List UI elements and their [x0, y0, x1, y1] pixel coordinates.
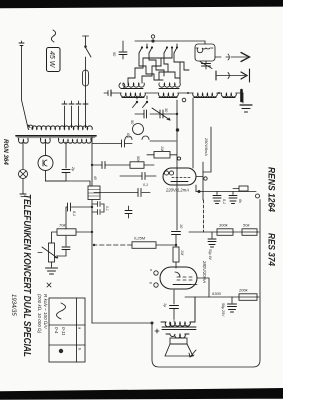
HT feed line down right — [196, 191, 256, 193]
resistor 6k — [233, 186, 248, 191]
wire — [150, 140, 176, 142]
tuned circuit coil L2 (lower group) — [119, 83, 144, 89]
wire — [242, 93, 244, 103]
volume feed line — [156, 244, 176, 246]
screen bypass cap 50u — [208, 232, 216, 260]
switch contact dots — [176, 46, 178, 48]
svg-text:50μ 25V: 50μ 25V — [221, 303, 225, 317]
switch wiper blades — [139, 48, 177, 54]
screen feed line — [189, 231, 259, 233]
dashed shield line — [203, 200, 205, 232]
potentiometer — [38, 232, 58, 262]
cathode wire — [173, 290, 175, 304]
trimmer capacitor C-ant — [200, 61, 212, 69]
transformer primary winding — [28, 124, 92, 130]
svg-text:0,1: 0,1 — [222, 199, 226, 204]
svg-text:1M: 1M — [160, 146, 164, 152]
wire with series capacitor — [120, 173, 156, 180]
grid resistor 1M — [147, 152, 177, 159]
svg-text:50k: 50k — [243, 223, 250, 228]
HT winding to filter cap 2u — [62, 142, 75, 181]
node a (terminal dot on bus) — [151, 39, 154, 42]
45W consumption box — [47, 48, 61, 72]
svg-text:0,1: 0,1 — [143, 183, 148, 187]
top film bar — [0, 0, 283, 8]
svg-text:300k: 300k — [219, 223, 229, 228]
decoupling capacitor 0,1 with ground — [229, 192, 237, 204]
grid resistor 1M horizontal — [173, 247, 179, 268]
wire from box to top bus — [204, 41, 206, 44]
svg-text:45: 45 — [93, 176, 97, 180]
grid wire from antenna coil to detector tube — [192, 98, 194, 168]
tone resistor 70k vertical — [52, 223, 92, 236]
svg-text:(200 kΩ, 10 000 Ω): (200 kΩ, 10 000 Ω) — [37, 294, 42, 334]
voltage selector taps — [62, 86, 88, 124]
band switch contact lattice — [128, 44, 189, 83]
pickup hook upper — [142, 136, 149, 140]
svg-text:g: g — [149, 282, 153, 284]
pilot lamp — [19, 142, 28, 194]
svg-text:280V/20mA: 280V/20mA — [202, 260, 207, 283]
tuning capacitor line — [150, 113, 177, 115]
svg-text:220V/1,2mA: 220V/1,2mA — [165, 188, 189, 193]
svg-text:6k: 6k — [238, 199, 242, 203]
terminal cross — [47, 283, 51, 287]
svg-text:RGN 364: RGN 364 — [2, 139, 9, 165]
screen supply wire — [203, 127, 211, 172]
svg-text:RENS 1264: RENS 1264 — [267, 167, 278, 213]
svg-text:R kolv ~ 100 Ω/V: R kolv ~ 100 Ω/V — [43, 294, 48, 330]
wire lattice — [161, 48, 172, 67]
blocking capacitor 0,1 to chassis — [94, 183, 150, 197]
speaker: coil body — [170, 338, 187, 344]
tube pin circles — [154, 271, 158, 275]
mains wire — [22, 46, 29, 129]
band switch S1b — [133, 96, 149, 108]
plate load wire — [202, 162, 204, 200]
rectifier filament winding — [41, 138, 51, 143]
capacitor C-pad — [135, 110, 147, 118]
coupling capacitor C-g — [92, 140, 132, 147]
cathode lead — [195, 185, 197, 192]
cathode bypass capacitor — [92, 162, 130, 169]
lamp terminal — [20, 194, 26, 197]
field winding resistor 200k — [238, 288, 257, 301]
svg-text:0-11: 0-11 — [61, 327, 66, 336]
chassis rail — [91, 137, 93, 323]
ground symbol — [46, 262, 58, 274]
bottom film bar — [0, 388, 283, 400]
cathode capacitor — [163, 303, 179, 319]
small caps on rail — [92, 202, 109, 215]
svg-text:0,1: 0,1 — [105, 206, 109, 211]
svg-text:1M: 1M — [180, 250, 184, 256]
grid cap circle — [133, 124, 144, 135]
B+ takeoff wire — [46, 180, 91, 182]
svg-text:TELEFUNKEN KONCERT DUAL SPECIA: TELEFUNKEN KONCERT DUAL SPECIAL — [21, 194, 32, 357]
svg-text:0,25M: 0,25M — [134, 236, 146, 241]
oscillator/antenna input coil box — [195, 44, 229, 61]
resistor 0,25M vertical — [132, 236, 156, 249]
top-left feed bus wire — [135, 40, 205, 42]
rectifier tube RGN364 — [38, 142, 53, 181]
cap across pot — [58, 236, 70, 256]
HT secondary winding — [59, 138, 92, 143]
output tube RES374 envelope — [160, 267, 197, 289]
antenna coil chain column — [121, 92, 243, 98]
AC tilde symbol — [51, 30, 55, 42]
field coil arrow — [189, 350, 196, 357]
junction bead — [176, 128, 179, 131]
svg-text:2μ: 2μ — [71, 166, 75, 171]
antenna symbol — [228, 53, 250, 62]
secondary winding — [166, 334, 189, 338]
mains switch — [83, 36, 92, 57]
coupling capacitor 10 — [172, 224, 184, 247]
plus mark — [155, 329, 159, 333]
terminal circle node — [256, 194, 260, 198]
decoupling capacitor 4u with ground — [213, 192, 221, 204]
electrolytic 50u with ground — [221, 297, 237, 317]
capacitor 0,1 mid — [125, 206, 132, 218]
svg-text:6300: 6300 — [212, 291, 222, 296]
svg-text:0,1: 0,1 — [72, 211, 76, 216]
svg-text:45 W: 45 W — [48, 51, 55, 69]
junction bead — [198, 190, 201, 193]
speaker cone — [165, 344, 193, 356]
svg-text:RES 374: RES 374 — [267, 233, 278, 267]
plate wire to output transformer — [197, 278, 209, 297]
output transformer primary — [161, 297, 195, 327]
resistor 300k vertical — [217, 229, 233, 236]
aerial terminal — [104, 90, 121, 96]
node a — [182, 98, 186, 102]
svg-text:50μ 6V: 50μ 6V — [208, 249, 212, 260]
fuse — [83, 57, 89, 86]
bus wire with rounded corners — [152, 200, 260, 368]
wire — [176, 100, 178, 230]
transformer core — [162, 327, 196, 330]
capacitor 50 — [112, 41, 127, 59]
core second line — [17, 137, 95, 139]
transformer core — [16, 135, 96, 137]
resistor 50k — [130, 162, 154, 169]
trimmer pair C-t — [152, 108, 170, 120]
terminal circle on rail — [204, 177, 207, 180]
earth symbol — [216, 69, 250, 82]
detector tube RENS1264 envelope — [163, 168, 203, 185]
block capacitor unit — [88, 181, 100, 200]
svg-text:70k: 70k — [59, 223, 66, 228]
svg-text:0-4: 0-4 — [54, 327, 59, 334]
svg-text:1934/35: 1934/35 — [10, 294, 16, 316]
svg-text:a: a — [149, 269, 153, 271]
resistor 50k vertical — [242, 229, 257, 236]
pickup hook lower — [125, 136, 132, 140]
pilot lamp winding — [19, 138, 29, 143]
chassis ground for antenna coil — [240, 90, 252, 112]
svg-text:0,1: 0,1 — [126, 133, 130, 138]
wire — [92, 322, 152, 324]
tuned circuit coil L1 (upper group) — [159, 83, 180, 89]
svg-text:200k: 200k — [238, 288, 249, 293]
svg-text:290V/6mA: 290V/6mA — [204, 137, 208, 156]
mains terminal — [19, 41, 24, 46]
coupling cap from rail — [66, 203, 92, 229]
field coil supply line — [185, 296, 259, 298]
